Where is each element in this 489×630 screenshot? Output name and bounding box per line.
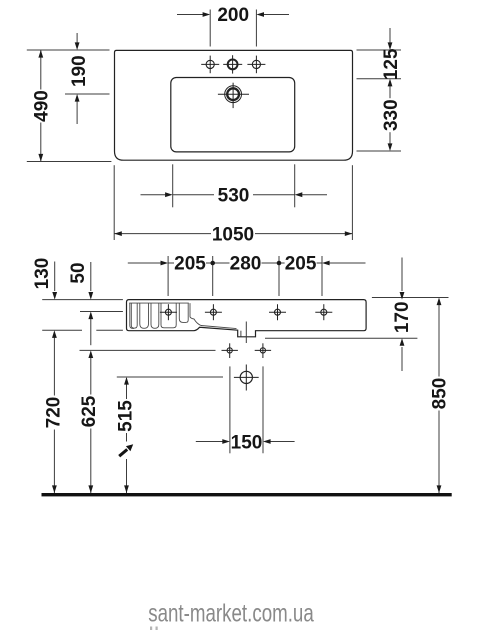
dot 280/205 [277, 261, 282, 266]
drain direction arrow [119, 442, 134, 460]
section rib 4 right wall [186, 303, 188, 322]
svg-text:sant-market.com.ua: sant-market.com.ua [148, 599, 314, 627]
svg-text:280: 280 [230, 254, 262, 275]
dim 200 right tail [263, 14, 289, 16]
dim 150 extension lines [229, 366, 231, 453]
svg-text:170: 170 [392, 301, 413, 333]
arrow 190 top [75, 42, 80, 50]
tap hole left [201, 56, 219, 74]
dim 530 extension left [172, 164, 174, 207]
label 150 [232, 431, 262, 452]
arrow 130 top [52, 292, 57, 300]
section rib 2 [140, 303, 149, 328]
arrow 205 right [322, 261, 330, 266]
dim 50 top arrow tail [90, 262, 92, 291]
dim 1050 line [114, 233, 352, 235]
dim 530 left tail [141, 194, 167, 196]
dim 50 bottom arrow tail [90, 319, 92, 346]
arrow 625 top [88, 350, 93, 358]
dot 205/280 [210, 261, 215, 266]
label 490 [33, 90, 49, 123]
side view section inner contour [129, 303, 236, 329]
label 205 right [285, 253, 317, 274]
arrow 850 top [437, 298, 442, 306]
dim 1050 extension left [113, 165, 115, 240]
floor line [42, 493, 452, 496]
section rib 3 [151, 303, 159, 328]
dim 1050 extension right [351, 165, 353, 240]
label 125 [382, 52, 398, 77]
svg-text:720: 720 [44, 397, 65, 429]
label 170 [393, 301, 409, 334]
svg-text:130: 130 [32, 258, 53, 290]
svg-text:530: 530 [218, 185, 250, 206]
tap hole middle [223, 55, 242, 73]
svg-text:1050: 1050 [212, 224, 254, 245]
arrow 125 top [388, 42, 393, 50]
section inner rim line [129, 302, 189, 304]
svg-text:205: 205 [285, 254, 317, 275]
svg-text:205: 205 [174, 254, 206, 275]
arrow 205 left [161, 261, 169, 266]
arrow 720 top (also 130 bottom) [52, 330, 57, 338]
arrow 850 bottom [437, 485, 442, 493]
dim 170 top arrow tail [401, 258, 403, 292]
dim 190 bottom arrow tail [76, 100, 78, 124]
svg-text:200: 200 [217, 5, 249, 26]
dim 850 line [438, 299, 440, 493]
label 205 left [174, 253, 206, 274]
dim 330 line upper segment [389, 85, 391, 99]
dim 625 line [90, 353, 92, 494]
svg-text:150: 150 [231, 432, 263, 453]
arrow 200 right [256, 12, 264, 17]
label 190 [70, 54, 86, 88]
labels with white backing [31, 4, 450, 453]
clipped watermark fragment [150, 627, 152, 630]
dim 205/280/205 extension lines [167, 256, 169, 296]
arrow 515 top [124, 377, 129, 385]
arrow 490 top [38, 50, 43, 58]
label 625 [80, 395, 96, 429]
tap hole right [247, 56, 265, 74]
fixing hole 3 [269, 304, 286, 320]
arrow 200 left [203, 12, 211, 17]
svg-text:190: 190 [69, 55, 90, 87]
dim 515 line [126, 378, 128, 493]
arrow 150 left [222, 439, 230, 444]
dim 150 tails [196, 441, 224, 443]
dim 530 inner line [173, 194, 295, 196]
dim 125 extension top [357, 49, 402, 51]
dim 125 top arrow tail [389, 28, 391, 44]
svg-text:850: 850 [430, 378, 451, 410]
dim 720 line [53, 332, 55, 493]
svg-text:490: 490 [31, 90, 52, 122]
side view outline [127, 300, 367, 337]
boss centerline [245, 322, 247, 344]
section overflow channel [161, 303, 176, 328]
arrow 150 right [263, 439, 271, 444]
label 200 [214, 4, 252, 25]
arrow 50 top [88, 292, 93, 300]
svg-text:625: 625 [79, 395, 100, 427]
dim 200 left tail [177, 14, 204, 16]
label 1050 [211, 223, 255, 244]
arrow 170 top [400, 292, 405, 300]
dim 205 right tail [329, 262, 366, 264]
section rib 4 [179, 303, 186, 322]
fixing hole 4 [315, 304, 332, 320]
fixing hole 2 [205, 304, 222, 320]
arrow 490 bottom [38, 154, 43, 162]
level line bottom (y=330.3) right part [96, 329, 123, 331]
level line holes (y=311.5) [80, 311, 123, 313]
svg-text:330: 330 [381, 99, 402, 131]
wall hole left [222, 343, 238, 358]
section inner left wall [130, 303, 134, 328]
extension line y=338.2 [265, 337, 417, 339]
extension line small holes (y=350.4) [80, 349, 216, 351]
boss inner line [240, 331, 242, 337]
arrow 1050 right [345, 231, 353, 236]
level line bottom (y=330.3) left part [42, 329, 82, 331]
section rib 1 [131, 303, 137, 328]
dim 200 extension line right [255, 10, 257, 47]
arrow 530 right [295, 192, 303, 197]
top view bowl outline [171, 78, 295, 152]
fixing hole 1 [160, 304, 177, 320]
dim 490 extension bottom [27, 161, 112, 163]
section underside upper contour [190, 303, 237, 329]
label 720 [45, 396, 61, 430]
level line top (y=299.6) [42, 299, 123, 301]
arrow 330 top [388, 79, 393, 87]
drain outlet circle [234, 365, 259, 391]
label 330 [382, 98, 398, 132]
dim 490 line [40, 50, 42, 162]
extension line y=297.5 right [372, 297, 449, 299]
label 850 [431, 377, 447, 411]
dim 190 top arrow tail [76, 33, 78, 44]
arrow 50 bottom [88, 312, 93, 320]
arrow 720 bottom [52, 485, 57, 493]
arrow 330 bottom [388, 143, 393, 151]
dim 530 right tail [302, 194, 328, 196]
label 280 [230, 253, 262, 274]
dim 130 top arrow tail [54, 262, 56, 292]
dim 190 extension line [65, 93, 110, 95]
dim 530 extension right [294, 164, 296, 207]
svg-text:125: 125 [381, 48, 402, 80]
svg-text:515: 515 [116, 400, 137, 432]
arrow 190 bottom [75, 94, 80, 102]
extension line drain circle (y=377) [117, 376, 223, 378]
arrow 170 bottom [400, 338, 405, 346]
dim 330 line lower segment [389, 131, 391, 145]
svg-text:50: 50 [68, 262, 89, 283]
wall hole right [255, 343, 271, 358]
dim 490 extension top [27, 49, 110, 51]
dim 200 extension line left [209, 10, 211, 47]
arrow 530 left [165, 192, 173, 197]
dim row line [168, 262, 322, 264]
dim 205 left tail [128, 262, 162, 264]
dim 330 extension bottom [357, 150, 402, 152]
dim 125 extension middle [357, 78, 402, 80]
label 530 [214, 184, 253, 205]
dim 170 bottom arrow tail [401, 347, 403, 371]
arrow 1050 left [114, 231, 122, 236]
arrow 625 bottom [88, 485, 93, 493]
top view basin outline [115, 50, 353, 160]
drain top view [218, 83, 249, 108]
label 515 [117, 399, 133, 433]
arrow 515 bottom [124, 485, 129, 493]
